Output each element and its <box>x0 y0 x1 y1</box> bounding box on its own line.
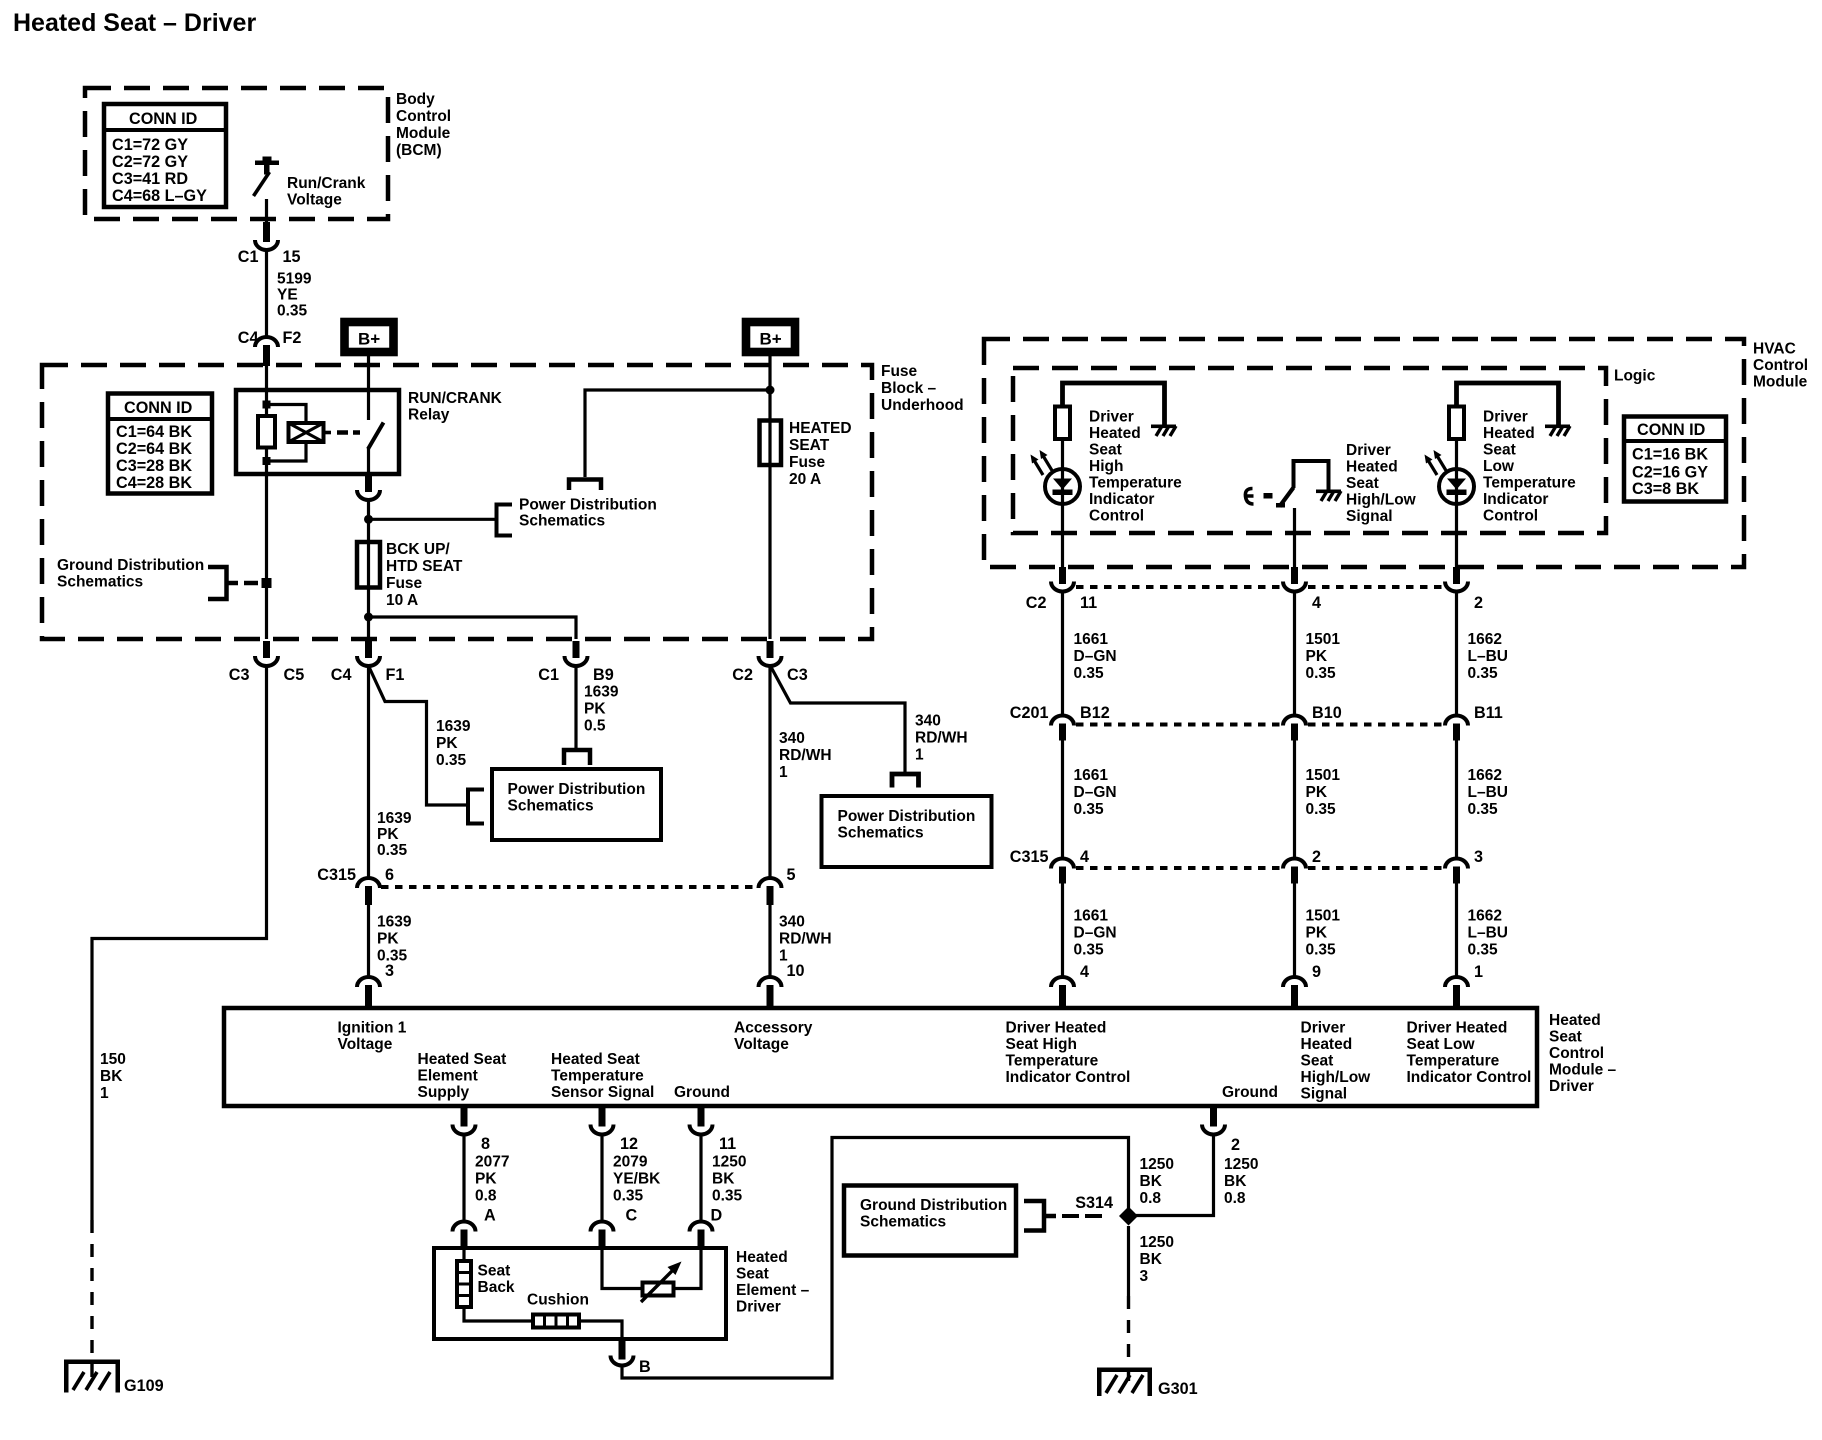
svg-text:1: 1 <box>915 747 924 764</box>
svg-text:Heated Seat: Heated Seat <box>551 1051 640 1068</box>
label 1639 PK 0.35 branch <box>436 718 471 769</box>
ground logic right <box>1545 425 1570 437</box>
svg-text:150: 150 <box>100 1051 126 1068</box>
svg-text:C2: C2 <box>732 666 753 684</box>
svg-text:1662: 1662 <box>1468 767 1502 784</box>
svg-text:RD/WH: RD/WH <box>779 747 832 764</box>
BCM label Body Control Module (BCM) <box>396 91 451 159</box>
wire 1501 PK seg2 <box>1295 740 1341 859</box>
connector pin 9 into module <box>1283 963 1321 1008</box>
svg-text:20 A: 20 A <box>789 471 821 488</box>
svg-text:C1=64 BK: C1=64 BK <box>116 423 192 441</box>
HVAC CONN ID table <box>1624 417 1726 502</box>
svg-text:Heated: Heated <box>1483 425 1535 442</box>
LED1 indicator <box>1031 450 1081 504</box>
svg-text:4: 4 <box>1080 848 1089 866</box>
HVAC Control Module dashed box <box>984 339 1744 567</box>
wire resistor to LED1 <box>1061 439 1064 567</box>
svg-text:Ground Distribution: Ground Distribution <box>860 1197 1007 1214</box>
label Driver Heated Seat High Temperature Indicator Control <box>1089 409 1182 525</box>
svg-text:Heated: Heated <box>736 1249 788 1266</box>
svg-text:340: 340 <box>915 713 941 730</box>
svg-text:PK: PK <box>1306 648 1328 665</box>
svg-text:2079: 2079 <box>613 1154 648 1171</box>
label Driver Heated Seat Low Temperature Indicator Control <box>1483 409 1576 525</box>
connector pin D seat element <box>690 1222 713 1249</box>
svg-text:1639: 1639 <box>377 914 412 931</box>
label Driver Heated Seat High/Low Signal <box>1346 442 1417 525</box>
bracket to Power Distribution Schematics <box>497 505 513 536</box>
wire from B+1 to relay <box>367 356 370 390</box>
relay actuation dashes <box>337 430 360 435</box>
relay coil resistor <box>258 416 275 448</box>
svg-text:Module –: Module – <box>1549 1062 1617 1079</box>
svg-text:RD/WH: RD/WH <box>915 730 968 747</box>
label Heated Seat Control Module - Driver <box>1549 1012 1617 1095</box>
connector pin 8 below module <box>453 1106 491 1153</box>
wire A into seat back element <box>462 1248 465 1262</box>
svg-text:C1: C1 <box>238 248 259 266</box>
connector pin C seat element <box>591 1222 614 1249</box>
svg-text:Heated: Heated <box>1346 459 1398 476</box>
svg-text:Control: Control <box>1483 508 1538 525</box>
dashed wire to G109 <box>90 1220 93 1380</box>
wire 1662 L-BU seg2 <box>1457 740 1508 859</box>
svg-text:Power Distribution: Power Distribution <box>838 808 976 825</box>
svg-text:F2: F2 <box>283 329 302 347</box>
svg-text:1: 1 <box>1474 963 1483 981</box>
svg-text:Seat: Seat <box>1549 1029 1582 1046</box>
svg-text:C201: C201 <box>1010 704 1049 722</box>
svg-text:PK: PK <box>1306 784 1328 801</box>
svg-text:Seat: Seat <box>478 1263 511 1280</box>
connector pin 4 into module <box>1051 963 1089 1008</box>
wire BCM feed through relay coil <box>265 366 268 418</box>
connector C201 pin B11 <box>1445 704 1503 741</box>
connector C315 pin 6 <box>317 866 394 905</box>
svg-text:HTD SEAT: HTD SEAT <box>386 558 463 575</box>
dashed wire to G301 <box>1127 1296 1130 1382</box>
wire B9 down to PDS box 1 <box>576 666 619 748</box>
svg-text:(BCM): (BCM) <box>396 142 442 159</box>
svg-text:BK: BK <box>712 1171 735 1188</box>
svg-text:YE: YE <box>277 287 298 304</box>
svg-text:3: 3 <box>1474 848 1483 866</box>
junction relay output <box>364 515 373 524</box>
ground G301 <box>1097 1368 1198 1399</box>
svg-text:Indicator Control: Indicator Control <box>1006 1069 1131 1086</box>
label 1250 BK 0.8 right <box>1224 1156 1258 1207</box>
wire 1639 PK to module <box>369 905 412 977</box>
svg-text:0.35: 0.35 <box>436 752 467 769</box>
svg-text:PK: PK <box>475 1171 497 1188</box>
svg-text:2: 2 <box>1474 594 1483 612</box>
svg-text:C2=64 BK: C2=64 BK <box>116 440 192 458</box>
svg-text:RUN/CRANK: RUN/CRANK <box>408 390 503 407</box>
wire 1250 BK 0.35 <box>701 1135 746 1225</box>
svg-text:Body: Body <box>396 91 435 108</box>
svg-text:RD/WH: RD/WH <box>779 931 832 948</box>
svg-text:Seat: Seat <box>1089 442 1122 459</box>
svg-text:1639: 1639 <box>377 810 412 827</box>
svg-text:Voltage: Voltage <box>338 1036 393 1053</box>
svg-text:11: 11 <box>1080 594 1097 612</box>
svg-text:C: C <box>626 1207 638 1225</box>
svg-text:PK: PK <box>377 931 399 948</box>
box Ground Distribution Schematics <box>844 1186 1016 1256</box>
svg-text:1501: 1501 <box>1306 631 1341 648</box>
svg-text:1250: 1250 <box>1224 1156 1258 1173</box>
wire 340 RD/WH main down <box>770 666 832 878</box>
label RUN/CRANK Relay <box>408 390 503 424</box>
svg-text:BK: BK <box>100 1068 123 1085</box>
relay RUN/CRANK box <box>236 390 399 474</box>
connector pin 11 below module <box>690 1106 737 1153</box>
svg-text:C3: C3 <box>229 666 250 684</box>
svg-text:HEATED: HEATED <box>789 420 852 437</box>
svg-text:1250: 1250 <box>1140 1156 1174 1173</box>
svg-text:High: High <box>1089 458 1123 475</box>
connector C2 pin 4 <box>1283 567 1321 612</box>
Heated Seat Element box <box>434 1248 726 1339</box>
svg-text:0.35: 0.35 <box>1306 942 1337 959</box>
svg-text:BK: BK <box>1140 1173 1163 1190</box>
wire 1661 D-GN seg1 <box>1063 592 1117 717</box>
svg-text:Heated Seat – Driver: Heated Seat – Driver <box>13 9 256 37</box>
connector pin 2 below module <box>1202 1106 1240 1154</box>
Heated Seat Control Module box <box>224 1008 1537 1106</box>
svg-text:C3=28 BK: C3=28 BK <box>116 457 192 475</box>
junction coil bottom <box>263 457 271 465</box>
svg-text:Control: Control <box>1089 508 1144 525</box>
svg-text:3: 3 <box>385 962 394 980</box>
svg-text:Indicator: Indicator <box>1089 491 1154 508</box>
svg-text:Underhood: Underhood <box>881 397 964 414</box>
relay solenoid X-box <box>289 423 332 442</box>
svg-text:Signal: Signal <box>1301 1086 1348 1103</box>
svg-text:High/Low: High/Low <box>1346 492 1417 509</box>
svg-text:6: 6 <box>385 866 394 884</box>
junction ground distribution tap <box>262 578 272 588</box>
bracket above PDS box 1 <box>564 750 590 765</box>
svg-text:Seat Low: Seat Low <box>1407 1036 1476 1053</box>
svg-text:Driver: Driver <box>1089 409 1134 426</box>
svg-text:5: 5 <box>787 866 796 884</box>
svg-text:Seat: Seat <box>1301 1053 1334 1070</box>
wire 1661 D-GN seg3 <box>1063 884 1117 978</box>
dashed connector row C315 left <box>381 885 758 889</box>
label 340 RD/WH 1 branch <box>915 713 968 764</box>
dashed connector row C201 <box>1076 723 1443 727</box>
wire coil bottom down <box>265 448 268 640</box>
label Fuse Block - Underhood <box>881 363 964 414</box>
svg-text:Driver: Driver <box>1549 1078 1594 1095</box>
svg-text:Back: Back <box>478 1279 515 1296</box>
connector pin B below element <box>611 1339 651 1376</box>
svg-text:Control: Control <box>1753 357 1808 374</box>
svg-text:Sensor Signal: Sensor Signal <box>551 1084 654 1101</box>
svg-text:0.8: 0.8 <box>1140 1190 1162 1207</box>
connector C201 pin B12 <box>1010 704 1110 741</box>
Logic dashed box <box>1013 368 1606 533</box>
svg-text:340: 340 <box>779 914 805 931</box>
svg-text:B9: B9 <box>593 666 614 684</box>
wire from B+2 to HEATED SEAT fuse <box>768 356 771 639</box>
svg-text:Indicator: Indicator <box>1483 491 1548 508</box>
svg-text:Temperature: Temperature <box>1006 1053 1099 1070</box>
resistor LED1 <box>1055 407 1070 440</box>
svg-text:B+: B+ <box>760 330 782 349</box>
junction at B+2 feed <box>766 386 775 395</box>
svg-text:0.35: 0.35 <box>712 1188 743 1205</box>
svg-text:10: 10 <box>787 962 805 980</box>
svg-text:Element –: Element – <box>736 1282 810 1299</box>
svg-text:2077: 2077 <box>475 1154 509 1171</box>
dashed connector row C315 right <box>1076 866 1443 870</box>
svg-text:D–GN: D–GN <box>1074 925 1117 942</box>
svg-text:Signal: Signal <box>1346 508 1393 525</box>
svg-text:C3=41 RD: C3=41 RD <box>112 170 188 188</box>
dashed connector row C2 <box>1076 585 1443 589</box>
fuse block CONN ID table <box>108 394 212 494</box>
connector C1/B9 below fuse block <box>538 641 613 684</box>
svg-text:Logic: Logic <box>1614 368 1656 385</box>
connector C2 pin 11 <box>1026 567 1097 612</box>
wire branch to power distribution <box>585 390 770 477</box>
wire 2077 PK 0.8 <box>464 1135 509 1225</box>
temperature sensor variable resistor <box>641 1262 682 1303</box>
pin label Ignition 1 Voltage <box>338 1020 407 1054</box>
pin label Driver Heated Seat High Temperature Indicator Control <box>1006 1020 1131 1087</box>
wire 5199 YE 0.35 <box>267 250 312 337</box>
connector C1 pin 15 (BCM) <box>238 222 301 266</box>
svg-text:PK: PK <box>377 826 399 843</box>
svg-text:1: 1 <box>779 764 788 781</box>
connector relay output <box>357 474 380 500</box>
svg-text:Schematics: Schematics <box>57 574 143 591</box>
svg-text:Relay: Relay <box>408 407 450 424</box>
svg-text:C315: C315 <box>1010 848 1049 866</box>
svg-text:Schematics: Schematics <box>860 1214 946 1231</box>
svg-text:1: 1 <box>100 1085 109 1102</box>
svg-text:340: 340 <box>779 730 805 747</box>
bracket ground distribution lower <box>1024 1201 1056 1231</box>
svg-text:B12: B12 <box>1080 704 1110 722</box>
connector pin 1 into module <box>1445 963 1483 1008</box>
svg-text:1662: 1662 <box>1468 631 1502 648</box>
bracket above PDS box 2 <box>892 774 919 788</box>
svg-text:CONN ID: CONN ID <box>1637 421 1706 439</box>
svg-text:B10: B10 <box>1312 704 1342 722</box>
svg-text:Seat: Seat <box>736 1266 769 1283</box>
fuse HEATED SEAT 20A <box>760 420 852 488</box>
fuse BCK UP/HTD SEAT 10A <box>357 541 463 609</box>
bracket ground distribution <box>208 567 238 599</box>
wire 1639 PK main down <box>369 666 412 878</box>
svg-text:C1: C1 <box>538 666 559 684</box>
switch Run/Crank Voltage in BCM <box>254 157 280 197</box>
svg-text:2: 2 <box>1312 848 1321 866</box>
svg-text:Block –: Block – <box>881 380 937 397</box>
BCM CONN ID table <box>104 104 226 207</box>
svg-text:1639: 1639 <box>436 718 471 735</box>
svg-text:BCK UP/: BCK UP/ <box>386 541 450 558</box>
label Ground Distribution Schematics (fuse block) <box>57 557 204 591</box>
svg-text:Voltage: Voltage <box>734 1036 789 1053</box>
svg-text:PK: PK <box>436 735 458 752</box>
svg-text:8: 8 <box>481 1135 490 1153</box>
svg-text:C4=68 L–GY: C4=68 L–GY <box>112 187 207 205</box>
pin label Heated Seat Element Supply <box>418 1051 507 1101</box>
svg-text:Control: Control <box>396 108 451 125</box>
B+ power feed 1 <box>345 322 394 352</box>
svg-text:12: 12 <box>620 1135 638 1153</box>
wire relay output to junction <box>367 500 370 639</box>
connector pin A seat element <box>453 1222 476 1249</box>
wire cushion to pin B <box>579 1321 622 1339</box>
svg-text:0.35: 0.35 <box>1468 665 1499 682</box>
pin label Accessory Voltage <box>734 1020 813 1054</box>
connector C315 pin 2 <box>1283 848 1321 884</box>
switch frame and contact <box>1294 461 1329 491</box>
svg-text:Heated: Heated <box>1301 1036 1353 1053</box>
connector C315 pin 4 <box>1010 848 1089 884</box>
svg-text:0.5: 0.5 <box>584 718 606 735</box>
svg-text:Module: Module <box>396 125 451 142</box>
junction below 10A fuse <box>364 613 373 622</box>
relay switch contact <box>368 390 384 474</box>
label Run/Crank Voltage <box>287 175 366 209</box>
svg-text:Cushion: Cushion <box>527 1292 589 1309</box>
svg-text:Seat: Seat <box>1346 475 1379 492</box>
svg-text:Heated Seat: Heated Seat <box>418 1051 507 1068</box>
wire branch C3 to PDS box 2 <box>771 667 905 773</box>
svg-text:0.35: 0.35 <box>1468 942 1499 959</box>
svg-text:Ground: Ground <box>674 1084 730 1101</box>
bracket into PDS box 1 <box>468 790 484 824</box>
svg-text:B: B <box>639 1358 651 1376</box>
svg-text:1250: 1250 <box>712 1154 746 1171</box>
pin label Heated Seat Temperature Sensor Signal <box>551 1051 654 1101</box>
svg-text:1501: 1501 <box>1306 908 1341 925</box>
svg-text:Element: Element <box>418 1068 478 1085</box>
connector pin 5 (C315) <box>759 866 796 905</box>
wire B to S314 <box>622 1138 1129 1379</box>
svg-text:S314: S314 <box>1075 1194 1113 1212</box>
svg-text:G109: G109 <box>124 1377 164 1395</box>
svg-text:B+: B+ <box>358 330 380 349</box>
svg-text:9: 9 <box>1312 963 1321 981</box>
connector pin 10 into module <box>759 962 805 1008</box>
svg-text:1501: 1501 <box>1306 767 1341 784</box>
svg-text:C4: C4 <box>238 329 259 347</box>
svg-text:Fuse: Fuse <box>386 575 423 592</box>
svg-text:Seat: Seat <box>1483 442 1516 459</box>
wire 1501 PK seg1 <box>1295 592 1341 717</box>
svg-text:1250: 1250 <box>1140 1234 1174 1251</box>
svg-text:D: D <box>711 1207 723 1225</box>
svg-text:Low: Low <box>1483 458 1515 475</box>
pin label Driver Heated Seat Low Temperature Indicator Control <box>1407 1020 1532 1087</box>
svg-text:5199: 5199 <box>277 271 312 288</box>
label HVAC Control Module <box>1753 341 1808 391</box>
svg-text:A: A <box>484 1207 496 1225</box>
svg-text:C315: C315 <box>317 866 356 884</box>
svg-text:0.8: 0.8 <box>475 1188 497 1205</box>
wire resistor to LED2 <box>1455 439 1458 567</box>
svg-text:1639: 1639 <box>584 684 619 701</box>
svg-text:C4: C4 <box>331 666 352 684</box>
svg-text:Driver: Driver <box>1301 1020 1346 1037</box>
svg-text:Temperature: Temperature <box>1089 475 1182 492</box>
wire 340 RD/WH to module <box>770 905 832 977</box>
svg-text:Driver: Driver <box>1346 442 1391 459</box>
wire from BCM switch down <box>265 199 268 222</box>
svg-text:Driver Heated: Driver Heated <box>1407 1020 1508 1037</box>
connector C3/C5 below fuse block <box>229 641 304 684</box>
svg-text:Ground Distribution: Ground Distribution <box>57 557 204 574</box>
heater element Seat Back <box>457 1261 471 1307</box>
wire LED2 top bar to ground <box>1457 383 1559 425</box>
svg-text:PK: PK <box>1306 925 1328 942</box>
svg-text:1661: 1661 <box>1074 908 1109 925</box>
connector C201 pin B10 <box>1283 704 1342 741</box>
svg-text:Accessory: Accessory <box>734 1020 813 1037</box>
svg-text:0.35: 0.35 <box>277 303 308 320</box>
svg-text:0.35: 0.35 <box>1468 801 1499 818</box>
svg-text:C1=72 GY: C1=72 GY <box>112 136 188 154</box>
svg-text:Driver: Driver <box>736 1299 781 1316</box>
svg-text:Module: Module <box>1753 374 1808 391</box>
label Power Distribution Schematics (fuse block) <box>519 497 657 530</box>
heater element Cushion <box>533 1315 579 1328</box>
wire LED1 top bar to ground <box>1063 383 1165 425</box>
wire 1501 PK seg3 <box>1295 884 1341 978</box>
svg-text:11: 11 <box>719 1135 736 1153</box>
svg-text:C2: C2 <box>1026 594 1047 612</box>
wire 150 BK left run to G109 <box>92 666 267 1220</box>
BCM module dashed box <box>85 88 388 219</box>
connector C4 pin F2 (fuse block) <box>238 329 302 366</box>
svg-text:Control: Control <box>1549 1045 1604 1062</box>
wire 1662 L-BU seg3 <box>1457 884 1508 978</box>
label Seat Back <box>478 1263 515 1297</box>
svg-text:Fuse: Fuse <box>789 454 826 471</box>
svg-text:C3: C3 <box>787 666 808 684</box>
ground logic switch <box>1316 490 1341 502</box>
svg-text:CONN ID: CONN ID <box>124 399 193 417</box>
LED2 indicator <box>1425 450 1475 504</box>
connector C2/C3 below fuse block <box>732 641 807 684</box>
svg-text:G301: G301 <box>1158 1380 1198 1398</box>
svg-text:C3=8 BK: C3=8 BK <box>1632 480 1699 498</box>
B+ power feed 2 <box>746 322 795 352</box>
ground G109 <box>64 1360 164 1396</box>
svg-text:F1: F1 <box>386 666 405 684</box>
wire sensor to D <box>672 1248 701 1289</box>
svg-text:Temperature: Temperature <box>1407 1053 1500 1070</box>
wire seat back to cushion <box>464 1307 534 1321</box>
box Power Distribution Schematics 2 <box>822 796 992 867</box>
svg-text:Schematics: Schematics <box>508 798 594 815</box>
svg-text:10 A: 10 A <box>386 592 418 609</box>
svg-text:BK: BK <box>1140 1251 1163 1268</box>
svg-text:Schematics: Schematics <box>838 825 924 842</box>
svg-text:4: 4 <box>1312 594 1321 612</box>
svg-text:L–BU: L–BU <box>1468 925 1508 942</box>
svg-text:Run/Crank: Run/Crank <box>287 175 366 192</box>
svg-text:Driver: Driver <box>1483 409 1528 426</box>
